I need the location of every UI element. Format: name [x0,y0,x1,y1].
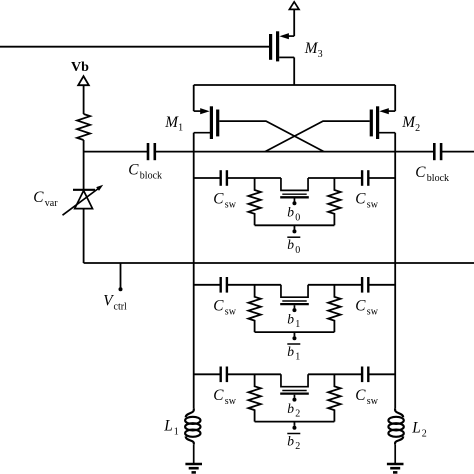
node Vctrl tap [119,263,123,291]
resistor bank 2 left [248,374,260,421]
svg-text:C: C [33,189,44,206]
label bbar2 [287,433,300,452]
label M1 [164,114,183,134]
wire: bias rail to varactor [83,140,85,190]
label Cblock left [128,161,162,181]
wire: bank 1 row [194,285,396,297]
varactor Cvar [63,185,104,215]
resistor bank 2 right [328,374,340,421]
resistor bias [77,114,90,140]
svg-text:b: b [287,237,294,252]
svg-text:block: block [427,173,449,184]
wire: tank line between rails [194,151,396,153]
transistor switch bank 2 (NMOS) [280,391,309,398]
svg-text:C: C [213,387,224,404]
svg-text:2: 2 [295,441,300,452]
node b1 gate [292,308,296,312]
wire: node B horizontal line [395,151,474,153]
svg-text:M: M [164,114,179,131]
label Csw bank 1 left [213,297,236,317]
node b0 gate [292,201,296,205]
svg-text:C: C [213,191,224,208]
svg-text:sw: sw [225,396,237,407]
svg-text:2: 2 [295,409,300,420]
capacitor Csw bank 2 right [362,367,368,383]
label Csw bank 0 right [355,191,378,211]
svg-text:0: 0 [295,212,300,223]
svg-text:block: block [140,170,162,181]
wire: M3 gate line from left edge [0,46,269,48]
svg-text:1: 1 [174,426,179,437]
capacitor Cblock left [148,143,155,160]
svg-text:Vb: Vb [71,60,89,75]
wire: M3 drain to tail rail [293,57,295,85]
svg-text:b: b [287,401,294,416]
svg-text:b: b [287,205,294,220]
svg-text:sw: sw [225,306,237,317]
node bbar2 tap [292,422,296,430]
power Vb supply symbol [78,76,89,85]
label Csw bank 0 left [213,191,236,211]
svg-text:L: L [411,420,421,437]
svg-text:b: b [287,311,294,326]
label M3 [304,40,323,60]
svg-text:var: var [45,198,58,209]
capacitor Cblock right [434,143,441,160]
label b1 [287,311,300,330]
wire: varactor to Vctrl line [83,209,85,263]
wire: Vctrl horizontal line [84,262,474,264]
svg-text:M: M [304,40,319,57]
transistor M3 [271,31,295,61]
label b2 [287,401,300,420]
wire: M1 drain to node A [193,133,195,152]
inductor L1 [185,409,200,464]
inductor L2 [388,409,403,464]
wire: right tank rail [394,152,396,409]
svg-text:ctrl: ctrl [114,301,128,312]
transistor switch bank 1 (NMOS) [280,301,309,308]
resistor bank 0 left [248,178,260,225]
capacitor Csw bank 2 left [221,367,227,383]
label M2 [401,114,420,134]
transistor M1 [194,106,218,139]
capacitor Csw bank 0 left [221,170,227,186]
wire: bank 0 row [194,178,396,190]
label Vctrl [103,292,127,312]
wire: node A horizontal line [84,151,194,153]
svg-text:C: C [415,164,426,181]
wire: bank 2 row [194,374,396,386]
label b0 [287,205,300,224]
label L2 [411,420,427,440]
wire: tail rail left drop [193,85,195,111]
transistor switch bank 0 (NMOS) [280,194,309,201]
power VDD supply symbol [289,2,299,10]
label Cvar [33,189,58,209]
svg-text:b: b [287,433,294,448]
svg-text:sw: sw [367,396,379,407]
svg-text:1: 1 [295,319,300,330]
label Vb [71,60,89,75]
svg-text:C: C [213,297,224,314]
wire: cross-couple M1 gate to node B [219,121,324,152]
label Cblock right [415,164,449,184]
svg-text:sw: sw [225,200,237,211]
svg-text:b: b [287,344,294,359]
svg-text:C: C [128,161,139,178]
wire: tail rail right drop [394,85,396,111]
svg-text:3: 3 [318,49,323,60]
svg-text:sw: sw [367,200,379,211]
label bbar1 [287,344,300,363]
label bbar0 [287,237,300,256]
capacitor Csw bank 0 right [362,170,368,186]
label Csw bank 2 left [213,387,236,407]
svg-text:C: C [355,297,366,314]
ground right [387,464,404,472]
capacitor Csw bank 1 left [221,277,227,293]
node b2 gate [292,398,296,402]
svg-text:2: 2 [422,428,427,439]
node bbar1 tap [292,332,296,340]
capacitor Csw bank 1 right [362,277,368,293]
svg-text:1: 1 [178,123,183,134]
label Csw bank 2 right [355,387,378,407]
svg-text:M: M [401,114,416,131]
resistor bank 1 left [248,285,260,332]
svg-text:C: C [355,387,366,404]
svg-text:sw: sw [367,306,379,317]
svg-text:L: L [163,418,173,435]
svg-text:2: 2 [415,123,420,134]
wire: bank 0 bottom [255,224,335,226]
wire: M2 drain to node B [394,133,396,152]
label L1 [163,418,179,438]
node bbar0 tap [292,225,296,233]
wire: Vb symbol to resistor [83,85,85,114]
wire: VDD to M3 source [293,9,295,36]
transistor M2 [371,106,395,139]
resistor bank 1 right [328,285,340,332]
wire: bank 2 bottom [255,421,335,423]
svg-text:1: 1 [295,352,300,363]
ground left [185,464,202,472]
wire: tail rail [194,84,396,86]
resistor bank 0 right [328,178,340,225]
label Csw bank 1 right [355,297,378,317]
wire: left tank rail [193,152,195,409]
svg-text:C: C [355,191,366,208]
wire: cross-couple M2 gate to node A [265,121,370,152]
wire: bank 1 bottom [255,331,335,333]
svg-text:0: 0 [295,245,300,256]
